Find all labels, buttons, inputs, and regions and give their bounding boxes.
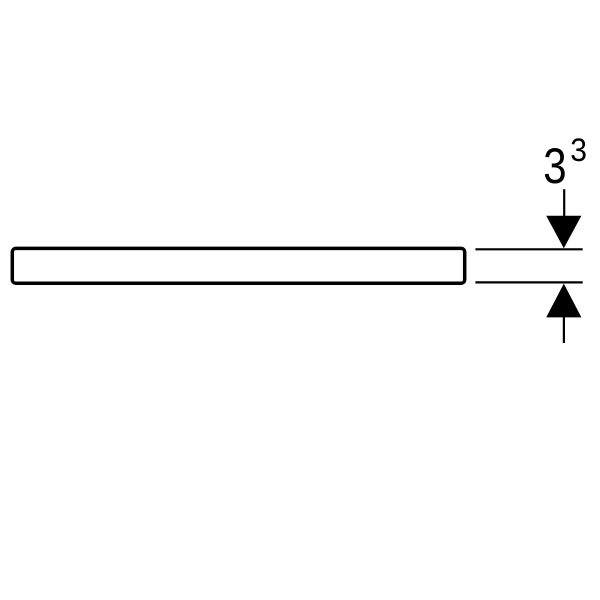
svg-text:3: 3 bbox=[543, 137, 566, 193]
svg-text:3: 3 bbox=[570, 132, 587, 168]
